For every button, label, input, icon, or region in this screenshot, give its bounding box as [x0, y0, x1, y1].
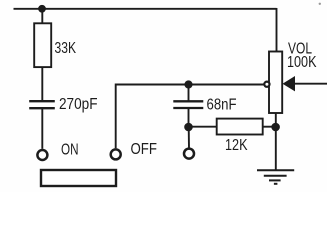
svg-text:OFF: OFF: [131, 141, 158, 158]
capacitor 270pF: [29, 101, 55, 108]
svg-text:68nF: 68nF: [207, 97, 237, 114]
junction node tap rail / 68nF: [184, 80, 192, 88]
svg-text:ON: ON: [61, 141, 79, 158]
wire junction to 33K top: [41, 9, 43, 24]
resistor 12K: [217, 119, 263, 135]
wire junction down to output terminal: [188, 127, 190, 148]
wire wiper to right edge: [294, 83, 327, 85]
wire top supply rail: [14, 8, 277, 10]
wire 33K bottom to 270pF: [41, 67, 43, 100]
junction node 68nF / 12K / terminal: [184, 123, 193, 132]
terminal OFF: [111, 149, 121, 159]
potentiometer wiper arrow: [283, 76, 296, 91]
wire OFF terminal up and right to pot tap: [116, 85, 264, 149]
junction node 12K / pot bottom / ground: [271, 123, 280, 132]
terminal output node: [184, 149, 194, 159]
switch body outline: [41, 170, 116, 186]
potentiometer tap circle: [264, 82, 269, 87]
wire junction down to 68nF: [188, 85, 190, 102]
wire junction to 12K left: [189, 126, 218, 128]
ground symbol: [257, 170, 294, 184]
wire pot bottom to ground: [275, 113, 277, 170]
wire 270pF to ON terminal: [41, 108, 43, 149]
wire 68nF to lower junction: [188, 108, 190, 127]
svg-text:100K: 100K: [287, 54, 317, 71]
svg-text:270pF: 270pF: [59, 96, 98, 113]
wire 12K right to pot bottom net: [263, 126, 276, 128]
potentiometer VOL 100K body: [269, 52, 282, 114]
junction node top rail / 33K: [38, 5, 46, 13]
svg-text:33K: 33K: [55, 40, 77, 57]
wire top rail corner down to potentiometer top: [276, 8, 278, 52]
capacitor 68nF: [173, 101, 203, 108]
resistor 33K: [34, 23, 51, 67]
terminal ON: [37, 150, 47, 160]
scan speck top right: [319, 3, 321, 5]
svg-text:12K: 12K: [225, 137, 248, 154]
